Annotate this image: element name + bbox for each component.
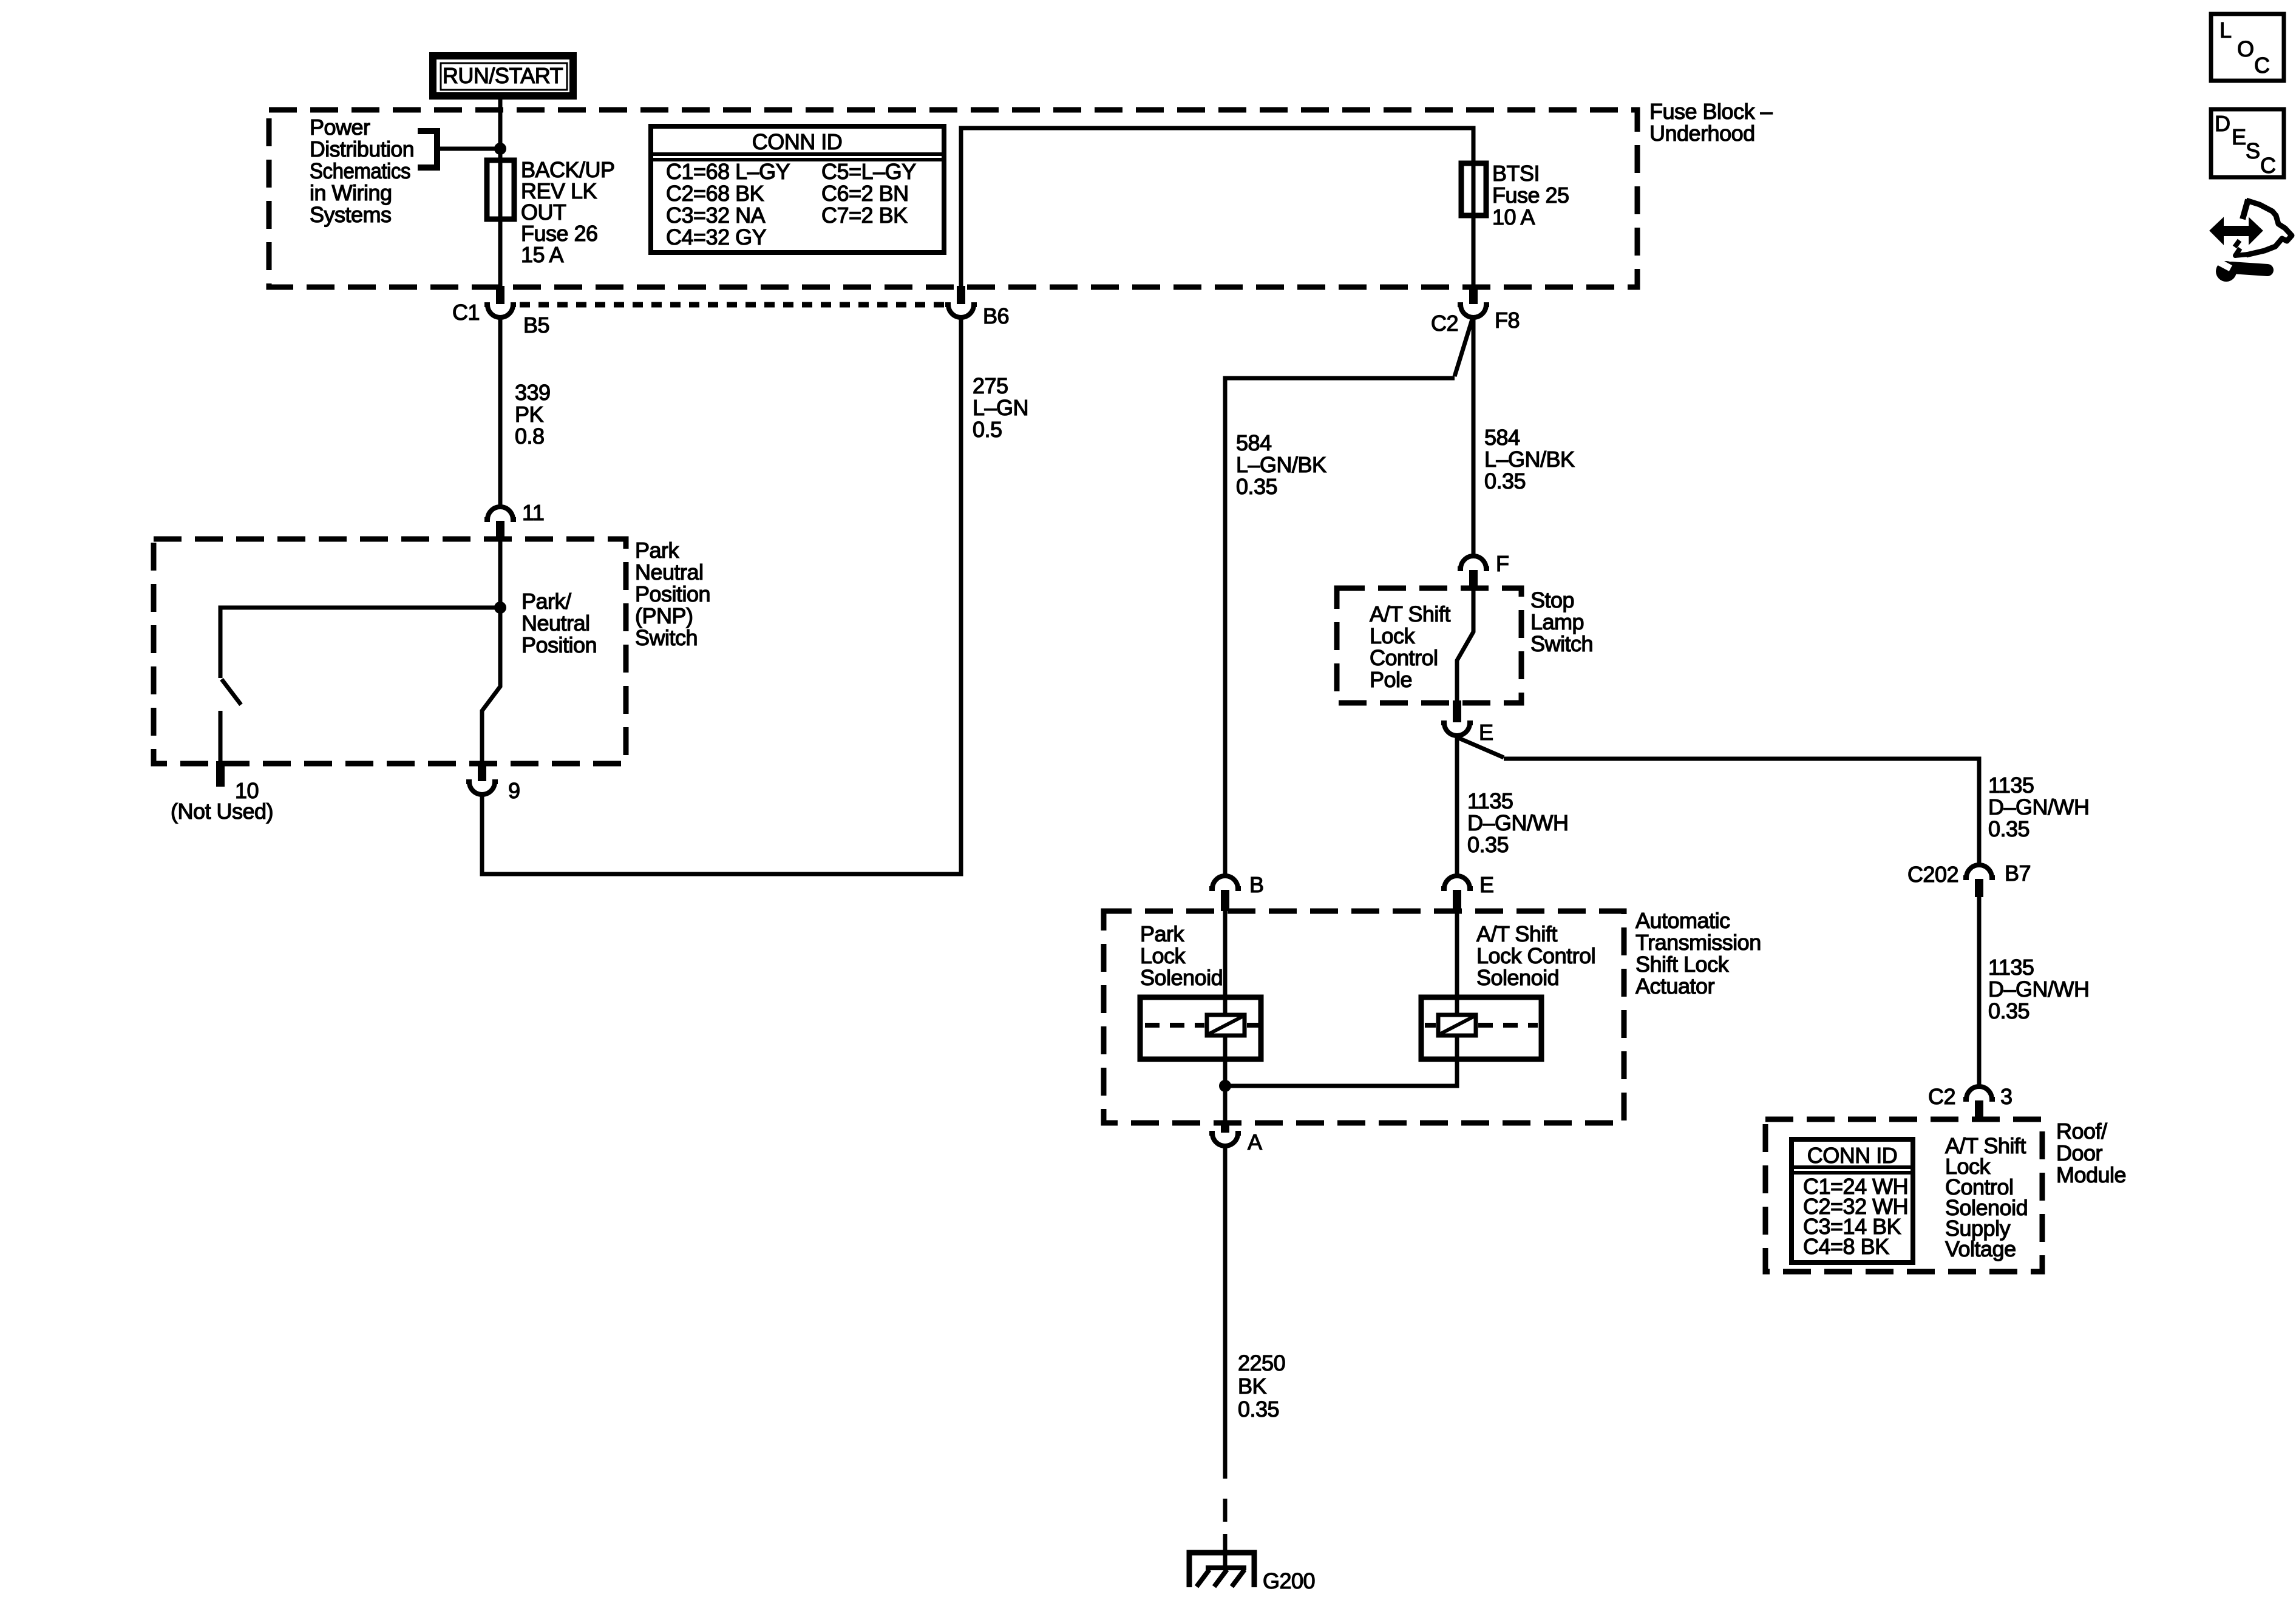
connector pin 11 (hood) into PNP switch	[484, 507, 516, 541]
svg-text:Roof/: Roof/	[2056, 1119, 2107, 1144]
svg-text:D–GN/WH: D–GN/WH	[1467, 810, 1569, 835]
value label 339 PK 0.8	[515, 380, 551, 449]
svg-text:Underhood: Underhood	[1649, 121, 1755, 146]
svg-text:Voltage: Voltage	[1945, 1236, 2016, 1261]
svg-text:584: 584	[1484, 425, 1520, 450]
svg-text:C5=L–GY: C5=L–GY	[821, 159, 916, 184]
node Park/Neutral Position contact label	[521, 589, 597, 657]
wire into ground symbol	[1223, 1534, 1228, 1568]
solenoid L1 Park Lock Solenoid	[1140, 997, 1261, 1059]
svg-text:Neutral: Neutral	[521, 611, 590, 636]
node Roof/Door Module dashed box	[1765, 1119, 2042, 1272]
terminal 10 stub (not used)	[216, 761, 225, 787]
connector pin E upper (cup) out of stop lamp switch	[1441, 700, 1473, 736]
svg-text:in Wiring: in Wiring	[310, 180, 392, 205]
svg-text:1135: 1135	[1988, 773, 2034, 798]
node LOC corner button	[2211, 14, 2284, 81]
connector B6 (cup)	[945, 286, 977, 317]
wire PNP pole branch to left contact	[220, 608, 500, 678]
fuse F26 BACK/UP REV LK OUT 15 A	[487, 160, 514, 219]
svg-text:C202: C202	[1907, 862, 1958, 887]
svg-text:Systems: Systems	[310, 202, 392, 227]
svg-text:F8: F8	[1495, 308, 1520, 333]
solenoid L2 A/T Shift Lock Control Solenoid	[1421, 997, 1541, 1059]
svg-text:D–GN/WH: D–GN/WH	[1988, 977, 2090, 1002]
svg-text:Power: Power	[310, 115, 370, 140]
node Fuse Block - Underhood label	[1649, 99, 1773, 146]
svg-text:Transmission: Transmission	[1635, 930, 1761, 955]
svg-text:0.5: 0.5	[973, 417, 1002, 442]
wire lower left contact to terminal 10	[219, 711, 223, 761]
svg-text:A/T Shift: A/T Shift	[1476, 921, 1557, 946]
node A/T Shift Lock Control Pole label	[1370, 602, 1450, 692]
svg-text:O: O	[2237, 36, 2254, 61]
svg-text:2250: 2250	[1238, 1351, 1285, 1375]
wire circuit 339 PK from B5 to PNP pin 11	[498, 317, 503, 507]
wire circuit 584 L-GN/BK branch from F8 to park lock solenoid pin B	[1225, 319, 1472, 878]
junction dot at power distribution tap	[494, 143, 506, 155]
connector C2 F8 (cup)	[1458, 286, 1489, 317]
svg-text:Lock: Lock	[1140, 943, 1186, 968]
svg-text:Lamp: Lamp	[1530, 609, 1584, 634]
svg-text:B6: B6	[983, 303, 1009, 328]
svg-text:L: L	[2220, 18, 2232, 42]
svg-text:L–GN: L–GN	[973, 395, 1028, 420]
wire circuit 1135 D-GN/WH branch from E across to C202 B7	[1459, 738, 1979, 866]
svg-text:L–GN/BK: L–GN/BK	[1236, 452, 1326, 477]
svg-text:0.35: 0.35	[1988, 998, 2029, 1023]
svg-text:Lock Control: Lock Control	[1476, 943, 1595, 968]
svg-text:Fuse 25: Fuse 25	[1492, 183, 1569, 208]
connector C2 pin 3 (hood) into roof/door module	[1963, 1086, 1995, 1119]
svg-text:Park: Park	[1140, 921, 1185, 946]
node A/T Shift Lock Control Solenoid label	[1476, 921, 1595, 990]
node A/T Shift Lock Control Solenoid Supply Voltage label	[1945, 1133, 2028, 1261]
junction dot solenoid common	[1219, 1080, 1231, 1092]
svg-text:BK: BK	[1238, 1374, 1267, 1398]
svg-text:Position: Position	[635, 581, 710, 606]
svg-text:A/T Shift: A/T Shift	[1370, 602, 1450, 626]
value label 1135 D-GN/WH 0.35 (lower right run)	[1988, 955, 2090, 1023]
wire dotted in-connector line B5 to B6	[520, 302, 945, 308]
wire bracket from Power Distribution label to wire	[418, 131, 500, 168]
connector pin E lower (hood) into shift lock actuator	[1441, 876, 1473, 911]
wire solenoid commons joined	[1225, 1059, 1457, 1086]
svg-text:Solenoid: Solenoid	[1476, 965, 1559, 990]
svg-text:E: E	[2232, 124, 2246, 149]
connector C202 B7 (hood)	[1963, 865, 1995, 897]
svg-text:D: D	[2215, 111, 2230, 136]
wire pin E to A/T shift lock control solenoid	[1455, 911, 1459, 997]
svg-text:C6=2 BN: C6=2 BN	[821, 181, 909, 206]
wire circuit 1135 D-GN/WH from B7 to roof/door module pin 3	[1977, 897, 1982, 1086]
svg-text:C2: C2	[1928, 1084, 1955, 1109]
svg-text:0.35: 0.35	[1236, 474, 1277, 499]
node Power Distribution Schematics reference	[310, 115, 414, 227]
svg-text:S: S	[2246, 138, 2260, 163]
svg-text:C4=32 GY: C4=32 GY	[666, 225, 767, 249]
svg-text:Solenoid: Solenoid	[1140, 965, 1223, 990]
wire PNP pole from pin 11 to junction	[498, 541, 503, 608]
value label 2250 BK 0.35	[1238, 1351, 1285, 1422]
svg-text:3: 3	[2000, 1084, 2012, 1109]
svg-text:G200: G200	[1263, 1568, 1315, 1593]
node actuator name label	[1635, 908, 1761, 998]
svg-text:0.35: 0.35	[1988, 816, 2029, 841]
svg-text:0.35: 0.35	[1467, 832, 1509, 857]
svg-text:0.35: 0.35	[1484, 469, 1526, 493]
value label 1135 D-GN/WH 0.35 (center run)	[1467, 788, 1569, 857]
svg-text:B: B	[1249, 872, 1264, 897]
value label 584 L-GN/BK 0.35 (left run)	[1236, 430, 1326, 499]
node DESC corner button	[2211, 109, 2284, 178]
icon component-view with arrow and wrench	[2211, 200, 2292, 282]
node CONN ID table (fuse block)	[651, 126, 944, 253]
connector C1 B5 (cup)	[484, 286, 516, 317]
svg-text:Schematics: Schematics	[310, 158, 410, 183]
svg-text:(Not Used): (Not Used)	[171, 799, 273, 824]
svg-text:C1=68 L–GY: C1=68 L–GY	[666, 159, 790, 184]
svg-text:0.8: 0.8	[515, 424, 545, 449]
wire B6 feed up and across fuse block to BTSI fuse	[961, 128, 1473, 287]
svg-text:Fuse Block –: Fuse Block –	[1649, 99, 1773, 124]
wire junction to pin A	[1223, 1086, 1228, 1120]
node Park/Neutral Position (PNP) Switch dashed box	[154, 539, 626, 764]
value label 1135 D-GN/WH 0.35 (upper right run)	[1988, 773, 2090, 841]
svg-text:C: C	[2254, 53, 2270, 78]
svg-text:RUN/START: RUN/START	[443, 63, 563, 88]
svg-text:9: 9	[508, 778, 520, 803]
wire circuit 1135 D-GN/WH from E to A/T shift lock control solenoid pin E	[1455, 736, 1459, 878]
svg-text:Lock: Lock	[1370, 623, 1416, 648]
wire circuit 275 L-GN from B6 down and across to PNP pin 9 leg	[482, 317, 961, 874]
svg-text:Pole: Pole	[1370, 667, 1412, 692]
wire BTSI fuse to connector C2 F8	[1472, 215, 1476, 287]
node Stop Lamp Switch label	[1530, 588, 1593, 656]
wire PNP pole right leg with jog to pin 9	[482, 608, 500, 762]
svg-text:C2: C2	[1431, 311, 1458, 336]
connector pin A (cup) out of actuator	[1209, 1120, 1241, 1146]
svg-text:CONN ID: CONN ID	[752, 129, 843, 154]
svg-text:Neutral: Neutral	[635, 560, 704, 585]
svg-text:C4=8 BK: C4=8 BK	[1803, 1234, 1889, 1259]
value label BTSI fuse	[1492, 161, 1569, 229]
svg-text:339: 339	[515, 380, 551, 405]
svg-text:B7: B7	[2005, 861, 2031, 886]
node Stop Lamp Switch dashed box	[1337, 588, 1521, 703]
svg-text:C2=68 BK: C2=68 BK	[666, 181, 764, 206]
svg-text:11: 11	[522, 500, 544, 525]
svg-text:A: A	[1248, 1130, 1262, 1154]
svg-text:D–GN/WH: D–GN/WH	[1988, 795, 2090, 819]
svg-text:Park: Park	[635, 538, 680, 563]
node Roof/Door Module label	[2056, 1119, 2126, 1187]
ground G200	[1189, 1553, 1254, 1587]
wire dashed continuation to ground	[1223, 1499, 1228, 1522]
svg-text:Park/: Park/	[521, 589, 571, 614]
node PNP switch name label	[635, 538, 710, 650]
svg-text:Control: Control	[1370, 645, 1438, 670]
svg-text:L–GN/BK: L–GN/BK	[1484, 447, 1575, 472]
svg-text:E: E	[1479, 872, 1494, 897]
value label 275 L-GN 0.5	[973, 373, 1028, 442]
node RUN/START (power feed box)	[433, 56, 573, 96]
connector pin F (hood) into stop lamp switch	[1458, 556, 1489, 588]
junction dot PNP pole	[494, 602, 506, 614]
svg-text:Door: Door	[2056, 1141, 2103, 1165]
svg-text:F: F	[1496, 551, 1509, 576]
svg-text:Shift Lock: Shift Lock	[1635, 952, 1730, 977]
svg-text:BTSI: BTSI	[1492, 161, 1540, 186]
node Automatic Transmission Shift Lock Actuator dashed box	[1104, 911, 1624, 1123]
svg-text:Module: Module	[2056, 1162, 2126, 1187]
svg-text:Actuator: Actuator	[1635, 974, 1715, 998]
svg-text:1135: 1135	[1467, 788, 1513, 813]
svg-text:584: 584	[1236, 430, 1272, 455]
wire circuit 584 L-GN/BK from F8 to stop lamp switch pin F	[1472, 317, 1476, 556]
svg-text:Stop: Stop	[1530, 588, 1574, 612]
node Fuse Block - Underhood (dashed box)	[269, 110, 1637, 287]
svg-text:(PNP): (PNP)	[635, 603, 693, 628]
svg-text:Switch: Switch	[635, 625, 698, 650]
wire stop lamp switch pole (jog)	[1457, 588, 1473, 700]
node Park Lock Solenoid label	[1140, 921, 1223, 990]
svg-text:C1: C1	[452, 300, 480, 325]
connector pin B (hood) into shift lock actuator	[1209, 876, 1241, 911]
value label fuse 26	[521, 157, 615, 267]
svg-text:15 A: 15 A	[521, 242, 564, 267]
wire pin B to park lock solenoid	[1223, 911, 1228, 997]
svg-text:10 A: 10 A	[1492, 205, 1535, 229]
svg-text:0.35: 0.35	[1238, 1397, 1279, 1422]
svg-text:275: 275	[973, 373, 1008, 398]
node CONN ID table (roof/door module)	[1792, 1139, 1913, 1263]
svg-text:CONN ID: CONN ID	[1807, 1143, 1898, 1168]
wire RUN/START to fuse 26	[498, 96, 503, 163]
value label 584 L-GN/BK 0.35 (right run)	[1484, 425, 1575, 493]
svg-text:C: C	[2260, 153, 2276, 178]
switch blade left (open, to terminal 10)	[222, 679, 241, 705]
svg-text:Distribution: Distribution	[310, 137, 414, 161]
svg-text:1135: 1135	[1988, 955, 2034, 980]
svg-text:Automatic: Automatic	[1635, 908, 1730, 933]
svg-text:Position: Position	[521, 632, 597, 657]
svg-text:C7=2 BK: C7=2 BK	[821, 203, 908, 228]
svg-text:E: E	[1479, 720, 1493, 745]
connector pin 9 (cup)	[466, 762, 498, 795]
fuse BTSI Fuse 25 10 A	[1461, 163, 1486, 215]
svg-text:B5: B5	[523, 313, 549, 337]
svg-text:Switch: Switch	[1530, 631, 1593, 656]
svg-text:C3=32 NA: C3=32 NA	[666, 203, 766, 228]
wire circuit 2250 BK from pin A toward G200	[1223, 1147, 1228, 1479]
wire fuse 26 to connector C1	[498, 219, 503, 287]
svg-text:PK: PK	[515, 402, 544, 427]
